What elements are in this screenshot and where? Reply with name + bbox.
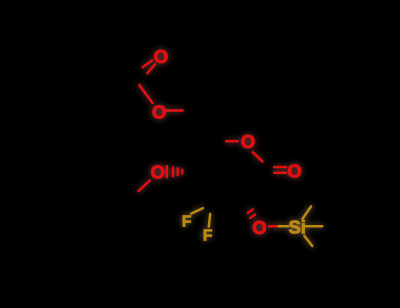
benzene ring 1 (benzoyl phenyl) [52,39,118,108]
bond CH2-C5 and black halves near ester O [183,111,213,142]
benzene ring 2 (benzyl phenyl) [62,184,122,252]
OBn hashed wedge red dashes [167,166,182,177]
benzyl CH2 [122,191,139,203]
bond OBn O - benzyl CH2 (red half) [139,181,150,192]
svg-text:O: O [287,160,301,181]
bond OTBS O - Si (red half) [269,225,279,228]
bond O-Si (gold half) [279,225,288,228]
svg-text:Si: Si [288,217,305,238]
OTBS hashed wedge red dashes [248,209,256,218]
svg-text:O: O [252,217,266,238]
Si bond down-right (gold half) [304,236,312,246]
bond carbonyl C - ester O (red half) [139,85,152,103]
bond ester O - CH2 (red half) [167,109,183,112]
svg-text:O: O [241,131,255,152]
svg-text:O: O [154,46,168,67]
benzoate C=O black halves [136,67,147,80]
Si bond right (gold half) [306,225,322,228]
lactone C=O black halves [268,167,274,173]
bond F1-C3 (gold half) [191,208,203,213]
TIPS skeleton [308,173,318,207]
svg-text:O: O [152,101,166,122]
benzoate C=O double bond (red halves) [143,61,156,74]
svg-text:F: F [203,228,213,245]
pyranose ring black bonds [212,140,225,143]
bond ring O - C1 (red half) [253,152,263,161]
bond F2-C3 (gold half) [209,214,210,227]
svg-text:F: F [182,213,192,230]
C3-F black halves [203,204,212,214]
bond ring1 to carbonyl C [118,62,136,80]
lactone C1=O double bond (red halves) [274,167,286,173]
bond C5 - ring O (red half) [226,140,237,143]
svg-text:O: O [151,162,165,183]
OBn hash black dashes [186,170,188,172]
Si bond up-right (gold half) [303,207,312,219]
C2-OTBS hash black dashes [245,200,250,207]
